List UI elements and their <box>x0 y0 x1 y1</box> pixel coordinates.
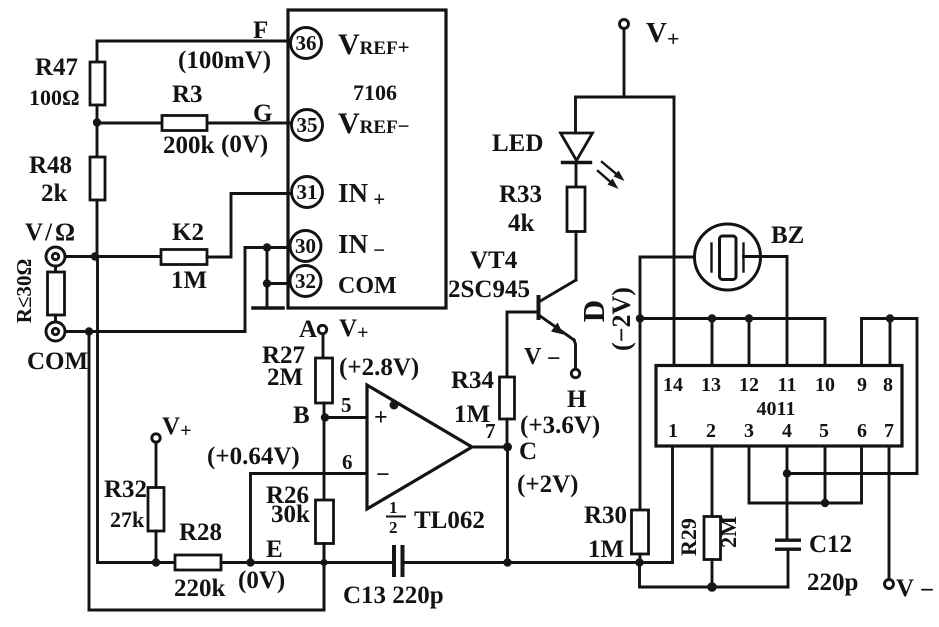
wire: R28 to node E <box>221 561 392 564</box>
svg-text:8: 8 <box>883 374 893 396</box>
terminal COM <box>27 322 88 375</box>
wire: pin30 to pin32 tie <box>266 248 269 284</box>
resistor K2 <box>161 219 207 294</box>
wire: BZ right lead to 4011 pin 11 column <box>744 257 788 366</box>
wire: R47 bottom lead <box>96 105 99 122</box>
svg-text:C: C <box>519 438 537 465</box>
node: C column / row junction <box>503 558 511 566</box>
pin 36 <box>291 28 322 59</box>
svg-text:BZ: BZ <box>771 222 804 249</box>
wire: B down to R26 <box>323 418 326 501</box>
svg-text:IN −: IN − <box>338 229 385 262</box>
svg-text:TL062: TL062 <box>414 507 485 534</box>
terminal V- bottom right <box>885 575 935 604</box>
svg-text:VT4: VT4 <box>470 247 518 274</box>
wire: COM frame left vertical <box>88 332 91 611</box>
svg-text:R28: R28 <box>179 519 222 546</box>
wire: 4011 pin 13 riser <box>711 319 714 366</box>
resistor R3 <box>162 81 215 159</box>
node: R32/R28 junction <box>152 558 160 566</box>
wire: R33 to VT4 collector <box>575 232 578 281</box>
wire: R32 bottom lead <box>155 531 158 563</box>
svg-text:R≤30Ω: R≤30Ω <box>12 259 36 324</box>
svg-text:(+2.8V): (+2.8V) <box>339 354 419 381</box>
resistor R27 <box>262 342 333 403</box>
wire: D-net corner down from BZ row <box>640 257 711 510</box>
node: V/ohm junction <box>91 252 99 260</box>
svg-text:V+: V+ <box>162 413 191 442</box>
node: R29 bottom junction <box>707 582 717 592</box>
svg-text:5: 5 <box>341 393 352 417</box>
node E <box>238 536 285 594</box>
svg-text:3: 3 <box>744 420 754 442</box>
svg-text:200k: 200k <box>163 132 215 159</box>
svg-text:(+0.64V): (+0.64V) <box>207 443 300 470</box>
node: pin 32 junction <box>263 279 271 287</box>
svg-text:R3: R3 <box>172 81 203 108</box>
wire: R26 bottom lead crossing E row to bottom frame <box>323 544 326 611</box>
wire: right row from pin4 to right rail <box>787 472 917 475</box>
svg-text:(+2V): (+2V) <box>517 471 578 498</box>
svg-text:11: 11 <box>778 374 797 396</box>
svg-text:5: 5 <box>819 420 829 442</box>
svg-text:VREF+: VREF+ <box>338 28 410 61</box>
svg-text:D: D <box>576 300 611 322</box>
wire: rail down to LED <box>574 97 577 133</box>
svg-text:A: A <box>299 316 317 343</box>
svg-text:1: 1 <box>389 498 398 517</box>
wire: 4011 pin 4 drop to C12 <box>786 446 789 540</box>
svg-text:V/Ω: V/Ω <box>25 219 75 246</box>
terminal V+ top <box>620 17 680 51</box>
svg-text:4011: 4011 <box>757 398 796 420</box>
svg-text:R29: R29 <box>676 518 701 556</box>
transistor VT4 2SC945 <box>448 247 576 369</box>
wire: 4011 pin 1 drop to E row <box>671 446 674 563</box>
terminal H <box>567 369 587 413</box>
node C <box>503 438 578 498</box>
wire: R34 bottom to node C <box>506 419 509 447</box>
wire: bottom frame rail <box>89 543 324 610</box>
capacitor C12 <box>775 531 858 596</box>
wire: R48 column <box>96 122 99 157</box>
wire: R30 bottom to E row <box>639 554 642 563</box>
wire: 4011 pin 7 drop to V- terminal <box>888 446 891 580</box>
svg-text:10: 10 <box>815 374 835 396</box>
svg-text:C12: C12 <box>809 531 852 558</box>
node: R30 / row junction <box>635 558 643 566</box>
node: R47/R3/R48 junction <box>93 118 101 126</box>
svg-text:31: 31 <box>297 180 318 204</box>
svg-text:1: 1 <box>668 420 678 442</box>
svg-text:220p: 220p <box>807 569 858 596</box>
svg-text:1M: 1M <box>171 267 207 294</box>
wire: V+ down to rail <box>623 29 626 98</box>
svg-text:R32: R32 <box>104 476 147 503</box>
svg-text:COM: COM <box>27 348 88 375</box>
svg-text:7: 7 <box>884 420 894 442</box>
svg-text:G: G <box>253 100 272 127</box>
svg-text:(0V): (0V) <box>221 131 268 158</box>
svg-text:R30: R30 <box>584 502 627 529</box>
wire: 4011 pin 8 riser <box>889 319 892 366</box>
svg-text:(100mV): (100mV) <box>178 47 271 74</box>
svg-text:14: 14 <box>663 374 683 396</box>
svg-text:7106: 7106 <box>353 80 397 105</box>
wire: R29 bottom lead <box>711 560 714 588</box>
svg-text:30k: 30k <box>271 501 310 528</box>
wire: R34 top to VT4 base <box>507 312 537 377</box>
wire: V+ rail right branch down to 4011 pin 14 <box>673 97 676 366</box>
capacitor C13 <box>343 545 444 609</box>
terminal A (V+) <box>299 315 368 344</box>
wire: row tying 4011 pins 9 and 8 to right rail <box>862 319 918 474</box>
wire: 4011 pin 12 riser <box>748 319 751 366</box>
svg-text:35: 35 <box>297 113 318 137</box>
svg-text:13: 13 <box>701 374 721 396</box>
resistor R48 <box>29 152 105 207</box>
svg-text:V+: V+ <box>646 17 680 51</box>
wire: A to R27 <box>322 334 325 358</box>
wire: V+ to R32 <box>155 442 158 488</box>
pin 35 <box>292 110 323 141</box>
wire: K2 to 7106 pin 31 <box>207 194 293 258</box>
LED diode symbol <box>492 130 593 163</box>
svg-text:R34: R34 <box>451 367 495 394</box>
svg-text:F: F <box>253 17 268 44</box>
wire: top rail from R47 to 7106 pin 36 (node F) <box>97 41 292 62</box>
terminal V/ohm <box>25 219 75 266</box>
wire: into 7106 pin 32 <box>267 282 292 285</box>
node: R26/E-row junction <box>320 559 327 566</box>
svg-text:6: 6 <box>342 450 353 474</box>
svg-text:2k: 2k <box>41 180 68 207</box>
wire: C13 to node C column and pin 1 of 4011 <box>405 561 673 564</box>
svg-text:4: 4 <box>782 420 792 442</box>
node: pin 4 / right row junction <box>783 469 791 477</box>
node: D-net / pin13-12 row junction <box>636 314 644 322</box>
wire: 4011 pin 3 drop <box>748 446 751 503</box>
svg-text:2M: 2M <box>716 516 741 548</box>
wire: row tying pins 3,5,6 <box>749 446 862 503</box>
svg-text:K2: K2 <box>172 219 204 246</box>
wire: riser from COM row to pin 30 row <box>244 248 247 332</box>
wire: R27 to node B <box>323 403 326 418</box>
svg-text:(+3.6V): (+3.6V) <box>520 412 600 439</box>
resistor R28 <box>174 519 226 602</box>
wire: into 7106 pin 30 <box>245 246 292 249</box>
wire: node C down to feedback row <box>506 447 509 563</box>
svg-text:100Ω: 100Ω <box>29 85 80 110</box>
svg-text:R47: R47 <box>35 54 78 81</box>
pin 32 <box>290 266 321 297</box>
svg-text:32: 32 <box>295 269 316 293</box>
node: analog common stub bar <box>253 306 283 310</box>
wire: C12 bottom to row <box>787 551 790 587</box>
wire: op-amp output (pin 7) to node C <box>472 446 508 449</box>
node: pin 30 junction <box>263 243 271 251</box>
buzzer BZ <box>695 222 805 290</box>
wire: LED to R33 <box>575 163 578 188</box>
resistor R30 <box>584 502 649 563</box>
svg-text:27k: 27k <box>110 507 145 532</box>
terminal V+ above R32 <box>152 413 192 442</box>
label 1/2 TL062 <box>387 498 485 537</box>
svg-text:2: 2 <box>706 420 716 442</box>
wire: stub below pin 32 junction <box>266 284 269 308</box>
svg-text:12: 12 <box>739 374 759 396</box>
svg-text:−: − <box>376 462 390 488</box>
resistor R26 <box>266 482 334 544</box>
pin 30 <box>290 231 321 262</box>
svg-text:C13 220p: C13 220p <box>343 582 444 609</box>
svg-text:V+: V+ <box>339 315 368 344</box>
IC U3 4011 box <box>656 366 902 447</box>
svg-text:V −: V − <box>896 575 934 604</box>
node: pin 12 junction <box>745 314 753 322</box>
svg-text:2SC945: 2SC945 <box>448 276 530 303</box>
svg-text:H: H <box>567 386 587 413</box>
LED emission arrow 2 <box>598 171 619 189</box>
svg-text:(0V): (0V) <box>238 567 285 594</box>
svg-text:4k: 4k <box>508 210 535 237</box>
svg-text:30: 30 <box>295 234 316 258</box>
svg-text:E: E <box>266 536 283 563</box>
resistor R47 <box>29 54 105 110</box>
node: pin 5 junction on row <box>821 499 829 507</box>
svg-text:36: 36 <box>296 31 317 55</box>
svg-text:IN +: IN + <box>338 178 385 211</box>
wire: E riser to op-amp - input (pin 6) <box>251 474 368 563</box>
svg-text:(−2V): (−2V) <box>607 287 636 351</box>
pin 31 <box>292 177 323 208</box>
svg-text:2M: 2M <box>267 364 303 391</box>
svg-text:VREF−: VREF− <box>338 107 410 140</box>
svg-text:COM: COM <box>338 273 397 299</box>
node: pin 13 junction <box>708 314 716 322</box>
resistor R29 <box>676 516 741 560</box>
svg-text:6: 6 <box>857 420 867 442</box>
node: pin 8 junction <box>886 314 894 322</box>
op-amp U2 triangle 1/2 TL062 <box>367 385 472 509</box>
svg-text:9: 9 <box>857 374 867 396</box>
wire: R3 to pin 35 (node G) <box>207 122 293 125</box>
svg-text:B: B <box>293 402 310 429</box>
wire: 4011 pin 2 drop to R29 <box>711 446 714 517</box>
wire: inner left vertical to R32/R28 row <box>98 257 176 563</box>
wire: R3 left lead <box>97 122 162 125</box>
svg-text:1M: 1M <box>454 401 490 428</box>
wire: 4011 pin 5 drop <box>824 446 827 503</box>
LED emission arrow 1 <box>602 162 625 181</box>
wire: V+ horizontal rail <box>576 96 675 99</box>
wire: row to 4011 pins 13/12/10 <box>640 319 825 366</box>
wire: jog down to bottom-right row <box>640 563 789 588</box>
op-amp U1 7106 IC box <box>288 10 446 308</box>
resistor R33 <box>499 181 585 237</box>
wire: B to op-amp + input (pin 5) <box>325 416 367 419</box>
resistor: series protection resistor below V/ohm (R&#8804;30 ohm) <box>12 259 65 324</box>
svg-text:220k: 220k <box>174 575 226 602</box>
svg-text:R33: R33 <box>499 181 542 208</box>
node B <box>293 402 329 429</box>
svg-text:LED: LED <box>492 130 543 157</box>
node: COM junction <box>85 327 93 335</box>
resistor R32 <box>104 476 164 532</box>
svg-text:2: 2 <box>389 518 398 537</box>
svg-text:+: + <box>374 405 388 431</box>
svg-text:R48: R48 <box>29 152 72 179</box>
svg-text:1M: 1M <box>588 536 624 563</box>
wire: R48 to V/ohm row <box>96 200 99 257</box>
wire: V/ohm row to K2 <box>65 255 161 258</box>
wire: COM row <box>65 330 245 333</box>
svg-text:V −: V − <box>524 344 561 372</box>
resistor R34 <box>451 367 515 428</box>
